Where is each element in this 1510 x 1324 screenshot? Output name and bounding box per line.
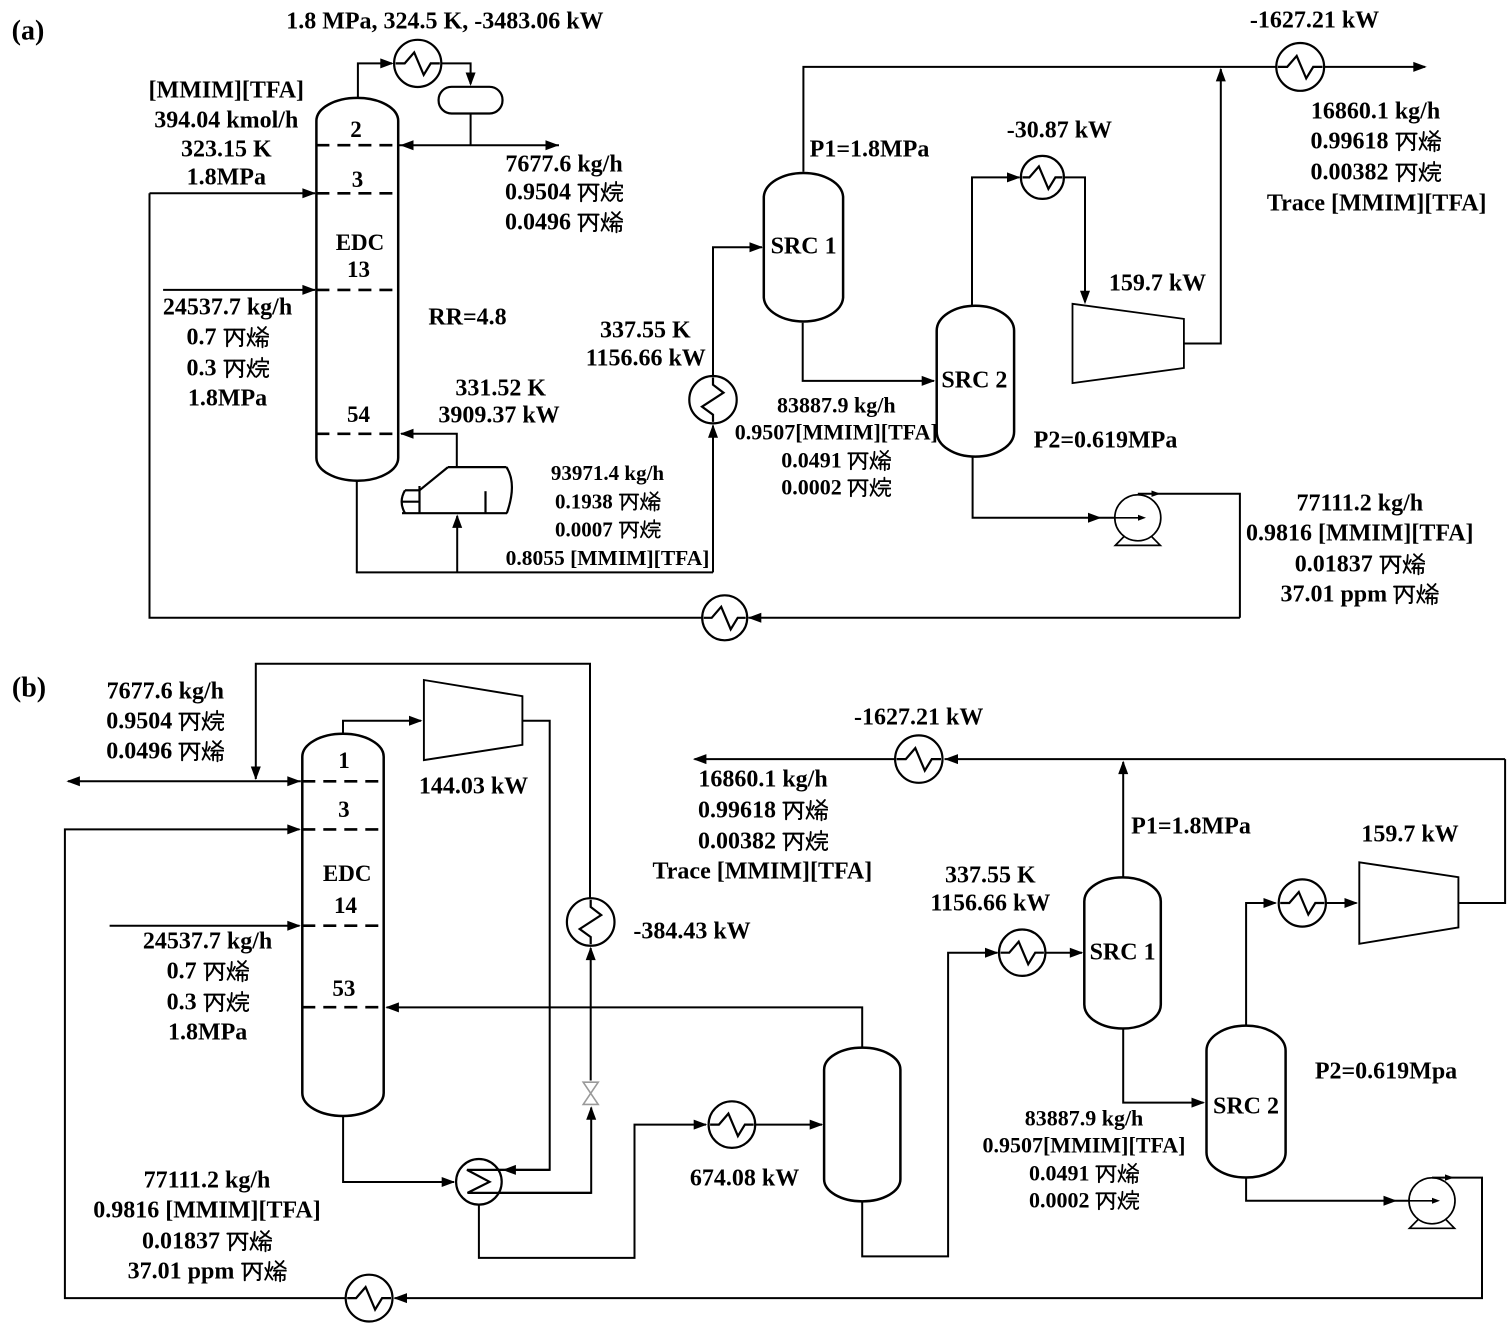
text label: 1.8MPa bbox=[188, 387, 267, 412]
EDC-a stage 3 dashed tray line bbox=[316, 192, 398, 195]
text label: P2=0.619Mpa bbox=[1315, 1059, 1457, 1084]
heat exchanger: E-a3 (337.55 K, 1156.66 kW) bbox=[689, 376, 736, 423]
wire: flash liquid to heater of SRC1-b bbox=[862, 953, 997, 1257]
wire: recycle loop top of figure b bbox=[256, 664, 590, 899]
text label: 37.01 ppm 丙烯 bbox=[1280, 583, 1439, 608]
EDC-b stage 3 dashed tray line bbox=[302, 828, 383, 831]
wire: heated solvent into flash drum (b) bbox=[755, 1124, 822, 1126]
text label: Trace [MMIM][TFA] bbox=[653, 860, 873, 885]
heat exchanger: 337.55 K 1156.66 kW (b) bbox=[999, 930, 1045, 976]
text label: 0.8055 [MMIM][TFA] bbox=[506, 547, 710, 569]
text label: 0.7 丙烯 bbox=[187, 326, 269, 351]
wire: SRC1-a liquid to SRC 2 (a) bbox=[803, 323, 934, 381]
text label: 159.7 kW bbox=[1109, 271, 1206, 296]
text label: 24537.7 kg/h bbox=[143, 930, 272, 955]
heat exchanger: condenser E-a1 (1.8 MPa, 324.5 K, -3483.06 kW) bbox=[394, 40, 441, 87]
wire: SRC1-b vapor up to product line bbox=[1122, 762, 1124, 877]
vessel SRC 1 (a) bbox=[764, 173, 843, 321]
wire: EDC-b distillate draw line bbox=[68, 780, 301, 782]
text label: RR=4.8 bbox=[428, 305, 506, 330]
wire: to SRC 1 (b) bbox=[1045, 952, 1082, 954]
text label: SRC 2 bbox=[1213, 1094, 1279, 1119]
text label: 1.8MPa bbox=[168, 1021, 247, 1046]
text label: 77111.2 kg/h bbox=[1296, 491, 1423, 516]
text label: 0.0491 丙烯 bbox=[781, 449, 891, 472]
heat exchanger: trim condenser -384.43 kW (b) bbox=[567, 898, 615, 946]
wire: EDC-a bottoms to reboiler and to rich-solvent line bbox=[357, 481, 713, 573]
text label: 53 bbox=[332, 977, 355, 1001]
text label: 3 bbox=[338, 798, 350, 822]
text label: 144.03 kW bbox=[419, 775, 528, 800]
text label: 0.9507[MMIM][TFA] bbox=[735, 422, 938, 445]
text label: (b) bbox=[12, 674, 46, 703]
wire: K-b2 discharge to product line bbox=[1458, 759, 1505, 903]
wire: economizer hot outlet up to valve bbox=[468, 1108, 592, 1193]
text label: 1 bbox=[338, 749, 350, 773]
text label: 7677.6 kg/h bbox=[107, 679, 224, 704]
text label: 37.01 ppm 丙烯 bbox=[128, 1259, 287, 1284]
heat exchanger: solvent cooler (b) bbox=[346, 1275, 393, 1322]
text label: 93971.4 kg/h bbox=[551, 463, 664, 485]
compressor K-b1 (144.03 kW) bbox=[424, 680, 523, 760]
wire: cooled solvent back to EDC-b stage 3 bbox=[65, 829, 346, 1298]
text label: 331.52 K bbox=[455, 377, 546, 402]
wire: cooled vapor to compressor (a) bbox=[1064, 177, 1085, 302]
heat exchanger before compressor K-b2 bbox=[1279, 879, 1326, 926]
text label: 0.9816 [MMIM][TFA] bbox=[93, 1199, 320, 1224]
wire: SRC2-b vapor to heater before compressor bbox=[1246, 903, 1275, 1026]
text label: -30.87 kW bbox=[1007, 119, 1112, 144]
text label: 0.0491 丙烯 bbox=[1029, 1162, 1139, 1185]
text label: 394.04 kmol/h bbox=[154, 108, 298, 133]
reflux drum D-a1 bbox=[439, 87, 503, 114]
wire: propylene product out (b) bbox=[695, 758, 896, 760]
letdown valve (b) bbox=[583, 1082, 598, 1093]
text label: 0.01837 丙烯 bbox=[142, 1229, 272, 1254]
text label: 13 bbox=[347, 258, 370, 282]
wire: propylene product out (a) bbox=[1324, 66, 1425, 68]
text label: 0.7 丙烯 bbox=[167, 960, 249, 985]
vessel SRC 2 (b) bbox=[1207, 1026, 1286, 1178]
text label: 0.9507[MMIM][TFA] bbox=[982, 1135, 1185, 1158]
wire: distillate / reflux line with arrows bbox=[398, 144, 559, 146]
text label: SRC 2 bbox=[941, 369, 1007, 394]
kettle reboiler E-a2 bbox=[402, 512, 507, 514]
text label: (a) bbox=[12, 16, 45, 45]
text label: P1=1.8MPa bbox=[1131, 815, 1251, 840]
wire: recycle line to solvent cooler (a) bbox=[749, 617, 1240, 619]
text label: 337.55 K bbox=[600, 318, 691, 343]
text label: 0.00382 丙烷 bbox=[1311, 161, 1441, 186]
text label: 7677.6 kg/h bbox=[505, 152, 622, 177]
text label: 674.08 kW bbox=[690, 1167, 799, 1192]
vessel SRC 1 (b) bbox=[1084, 877, 1161, 1028]
text label: 0.0496 丙烯 bbox=[106, 740, 224, 765]
text label: 0.01837 丙烯 bbox=[1295, 552, 1425, 577]
compressor K-b2 (159.7 kW) bbox=[1359, 862, 1458, 944]
text label: 0.0002 丙烷 bbox=[781, 476, 891, 499]
wire: EDC-b bottoms into economizer bbox=[343, 1116, 454, 1182]
pump P-b1 bbox=[1410, 1206, 1455, 1229]
text label: 0.9504 丙烷 bbox=[106, 710, 224, 735]
text label: EDC bbox=[336, 231, 385, 255]
text label: 337.55 K bbox=[945, 863, 1036, 888]
pump P-a1 bbox=[1115, 523, 1160, 546]
wire: condenser to reflux drum bbox=[441, 63, 470, 84]
wire: pump-a discharge lean solvent recycle bbox=[1138, 494, 1240, 618]
vessel SRC 2 (a) bbox=[937, 306, 1014, 457]
text label: 0.1938 丙烯 bbox=[555, 491, 660, 513]
text label: 24537.7 kg/h bbox=[163, 295, 292, 320]
text label: 3909.37 kW bbox=[438, 404, 559, 429]
text label: -1627.21 kW bbox=[1250, 9, 1379, 34]
EDC-b stage 14 dashed tray line bbox=[302, 924, 383, 927]
wire: vapor from valve up into trim condenser bbox=[590, 948, 592, 1081]
text label: 0.00382 丙烷 bbox=[698, 829, 828, 854]
EDC-a stage 13 dashed tray line bbox=[316, 289, 398, 292]
text label: 3 bbox=[352, 168, 364, 192]
text label: 1156.66 kW bbox=[586, 347, 706, 372]
EDC-b stage 53 dashed tray line bbox=[302, 1006, 383, 1009]
wire: solvent feed into EDC-a stage 3 bbox=[150, 192, 316, 194]
text label: 0.3 丙烷 bbox=[167, 990, 249, 1015]
wire: SRC1-a vapor to product cooler bbox=[803, 67, 1276, 172]
text label: 1.8MPa bbox=[187, 166, 266, 191]
wire: economizer cold outlet to heater 674.08 kW bbox=[479, 1125, 706, 1258]
text label: 0.0002 丙烷 bbox=[1029, 1189, 1139, 1212]
text label: -1627.21 kW bbox=[854, 706, 983, 731]
wire: fresh feed into EDC-a stage 13 bbox=[163, 289, 315, 291]
text label: 323.15 K bbox=[181, 137, 272, 162]
text label: Trace [MMIM][TFA] bbox=[1267, 192, 1487, 217]
wire: compressor-a discharge to overhead line bbox=[1184, 69, 1221, 344]
wire: cooled solvent back to EDC-a stage 3 bbox=[150, 193, 703, 618]
wire: flash vapor back to EDC-b stage 53 bbox=[387, 1007, 863, 1047]
wire: reboiler vapor return to EDC-a stage 54 bbox=[401, 434, 457, 467]
text label: SRC 1 bbox=[1090, 940, 1156, 965]
wire: SRC2-b liquid to pump (b) bbox=[1246, 1178, 1409, 1201]
wire: EDC-a overhead vapor to condenser bbox=[358, 63, 392, 98]
wire: EDC-b overhead to compressor K-b1 bbox=[343, 721, 421, 734]
text label: 16860.1 kg/h bbox=[1311, 100, 1440, 125]
text label: 0.99618 丙烯 bbox=[1311, 130, 1441, 155]
EDC-a stage 54 dashed tray line bbox=[316, 432, 398, 435]
text label: 77111.2 kg/h bbox=[144, 1169, 271, 1194]
text label: 0.9816 [MMIM][TFA] bbox=[1246, 522, 1473, 547]
heat exchanger: 674.08 kW (b) bbox=[709, 1101, 756, 1148]
text label: 83887.9 kg/h bbox=[1025, 1108, 1144, 1131]
economizer heat exchanger (b) bbox=[456, 1159, 502, 1205]
wire: fresh feed into EDC-b stage 14 bbox=[110, 925, 300, 927]
text label: EDC bbox=[323, 862, 372, 886]
wire: bottoms branch up into reboiler bbox=[456, 516, 458, 572]
wire: SRC1-b liquid to SRC 2 (b) bbox=[1123, 1029, 1203, 1103]
heat exchanger: product condenser -1627.21 kW (a) bbox=[1276, 43, 1324, 91]
text label: P2=0.619MPa bbox=[1034, 428, 1178, 453]
wire: K-b1 discharge down to economizer bbox=[467, 721, 550, 1170]
heat exchanger: product condenser -1627.21 kW (b) bbox=[895, 735, 942, 782]
EDC-a stage 2 dashed tray line bbox=[316, 144, 398, 147]
flash drum vessel (b) bbox=[824, 1048, 900, 1202]
wire: SRC2-a liquid to pump (a) bbox=[973, 457, 1116, 518]
text label: 0.99618 丙烯 bbox=[698, 798, 828, 823]
wire: to compressor K-b2 bbox=[1326, 902, 1357, 904]
EDC-b stage 1 dashed tray line bbox=[302, 780, 383, 783]
text label: 16860.1 kg/h bbox=[698, 768, 827, 793]
text label: 14 bbox=[334, 894, 357, 918]
text label: 2 bbox=[350, 118, 362, 142]
text label: 159.7 kW bbox=[1361, 823, 1458, 848]
column EDC-a shell bbox=[316, 98, 398, 481]
wire: reflux drum to distillate line bbox=[470, 114, 472, 146]
text label: 0.9504 丙烷 bbox=[505, 181, 623, 206]
text label: 0.0496 丙烯 bbox=[505, 210, 623, 235]
wire: heated solvent to SRC 1 (a) bbox=[713, 247, 762, 376]
heat exchanger: solvent cooler (a) bbox=[702, 595, 747, 640]
heat exchanger: -30.87 kW (a) bbox=[1021, 156, 1064, 199]
wire: pump-b discharge lean solvent recycle bbox=[395, 1178, 1483, 1299]
wire: rich solvent up to heater E-a3 bbox=[712, 426, 714, 573]
wire: SRC2-a vapor to cooler -30.87 kW bbox=[972, 177, 1020, 305]
text label: 1156.66 kW bbox=[930, 891, 1050, 916]
text label: 0.0007 丙烷 bbox=[555, 519, 660, 541]
text label: -384.43 kW bbox=[633, 919, 750, 944]
column EDC-b shell bbox=[302, 734, 383, 1116]
text label: 0.3 丙烷 bbox=[187, 356, 269, 381]
wire: product line through condenser -1627.21 kW (b) bbox=[945, 758, 1506, 760]
text label: P1=1.8MPa bbox=[810, 137, 930, 162]
text label: [MMIM][TFA] bbox=[149, 79, 304, 104]
text label: SRC 1 bbox=[771, 235, 837, 260]
text label: 1.8 MPa, 324.5 K, -3483.06 kW bbox=[286, 9, 603, 34]
text label: 83887.9 kg/h bbox=[777, 395, 896, 418]
compressor K-a1 (159.7 kW) bbox=[1073, 304, 1184, 383]
text label: 54 bbox=[347, 403, 370, 427]
